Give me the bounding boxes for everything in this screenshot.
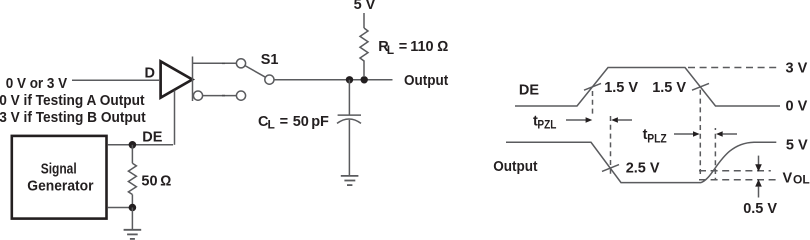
wire D input: [72, 79, 159, 81]
svg-text:3 V if Testing B Output: 3 V if Testing B Output: [0, 110, 146, 126]
svg-text:S1: S1: [261, 52, 279, 68]
svg-text:5 V: 5 V: [786, 138, 808, 154]
junction tick top: [222, 62, 225, 64]
Output waveform rising curve: [701, 142, 776, 182]
dashed vertical output fall crossing: [610, 116, 612, 174]
wire output node bar: [192, 57, 194, 102]
svg-text:Ω: Ω: [437, 39, 448, 55]
Output waveform falling: [506, 142, 701, 182]
svg-text:0 V: 0 V: [786, 99, 808, 115]
capacitor CL curved plate: [337, 119, 361, 123]
svg-text:0 V or 3 V: 0 V or 3 V: [6, 76, 68, 92]
svg-text:D: D: [145, 65, 155, 81]
svg-text:OL: OL: [793, 173, 810, 187]
tPLZ arrow right: [674, 133, 694, 135]
wire output rail: [274, 79, 393, 81]
node CL junction: [346, 76, 353, 83]
wire 5V lead: [363, 13, 365, 28]
switch S1 top contact: [236, 59, 245, 68]
switch S1 bottom contact: [236, 91, 245, 100]
wire 50ohm top lead: [131, 145, 133, 164]
ground under 50 ohm: [124, 230, 142, 239]
wire switch bottom branch: [203, 95, 237, 97]
op-amp U1 driver triangle: [161, 61, 193, 97]
svg-text:DE: DE: [519, 83, 539, 99]
svg-text:1.5 V: 1.5 V: [652, 80, 686, 96]
svg-text:110: 110: [410, 39, 433, 55]
svg-text:50: 50: [141, 174, 157, 190]
crossing tick DE rising: [584, 83, 601, 90]
svg-text:V: V: [783, 171, 793, 187]
svg-text:5 V: 5 V: [354, 0, 376, 13]
svg-text:L: L: [268, 118, 275, 132]
switch S1 bottom-left contact: [193, 91, 202, 100]
svg-text:1.5 V: 1.5 V: [604, 80, 638, 96]
wire CL bottom lead: [348, 120, 350, 176]
switch S1 common contact: [265, 75, 274, 84]
svg-text:PLZ: PLZ: [647, 131, 667, 145]
0.5V up arrow: [755, 179, 762, 186]
tPZL arrow right: [566, 119, 587, 121]
svg-text:Generator: Generator: [27, 178, 94, 194]
wire enable vertical: [174, 91, 176, 145]
wire switch top branch: [193, 62, 237, 64]
wire signal generator bottom: [108, 207, 133, 209]
resistor 50 ohm: [128, 163, 136, 194]
wire to ground: [131, 208, 133, 230]
svg-text:=: =: [280, 114, 288, 130]
resistor RL: [360, 28, 368, 61]
svg-text:Ω: Ω: [160, 174, 171, 190]
junction tick bottom: [222, 95, 225, 97]
wire DE horizontal: [108, 144, 173, 146]
svg-text:Output: Output: [404, 73, 448, 89]
svg-text:PZL: PZL: [537, 118, 556, 132]
dashed vertical DE rise crossing: [592, 91, 594, 117]
svg-text:3 V: 3 V: [786, 61, 808, 77]
svg-text:L: L: [387, 43, 394, 57]
crossing tick output falling: [602, 165, 619, 172]
dashed vertical DE fall crossing: [699, 90, 701, 177]
svg-text:50: 50: [293, 114, 309, 130]
crossing tick DE falling: [692, 83, 709, 90]
svg-text:0 V if Testing A Output: 0 V if Testing A Output: [0, 93, 145, 109]
capacitor CL top plate: [338, 114, 361, 116]
node DE junction: [129, 141, 137, 149]
signal generator box: [12, 136, 107, 219]
wire CL top lead: [348, 80, 350, 115]
svg-text:2.5 V: 2.5 V: [626, 160, 660, 176]
dashed vertical output rise crossing: [714, 128, 716, 180]
node ground junction: [129, 204, 137, 212]
wire 50ohm bottom lead: [131, 195, 133, 208]
svg-text:DE: DE: [142, 130, 162, 146]
svg-text:Output: Output: [493, 159, 537, 175]
node RL junction: [361, 76, 368, 83]
dashed level VOL: [699, 179, 778, 181]
svg-text:pF: pF: [311, 114, 329, 130]
wire RL bottom lead: [363, 60, 365, 77]
svg-text:0.5 V: 0.5 V: [743, 201, 777, 217]
tPLZ arrow left: [716, 131, 723, 137]
3V dashed level: [688, 67, 780, 69]
switch S1 arm: [245, 66, 265, 78]
ground under CL: [341, 176, 359, 185]
0.5V down arrow: [758, 156, 760, 165]
svg-text:Signal: Signal: [41, 161, 77, 177]
dashed level VOL plus 0.5: [699, 170, 771, 172]
DE waveform: [515, 68, 780, 107]
svg-text:=: =: [399, 39, 407, 55]
tPZL arrow left: [611, 117, 618, 123]
